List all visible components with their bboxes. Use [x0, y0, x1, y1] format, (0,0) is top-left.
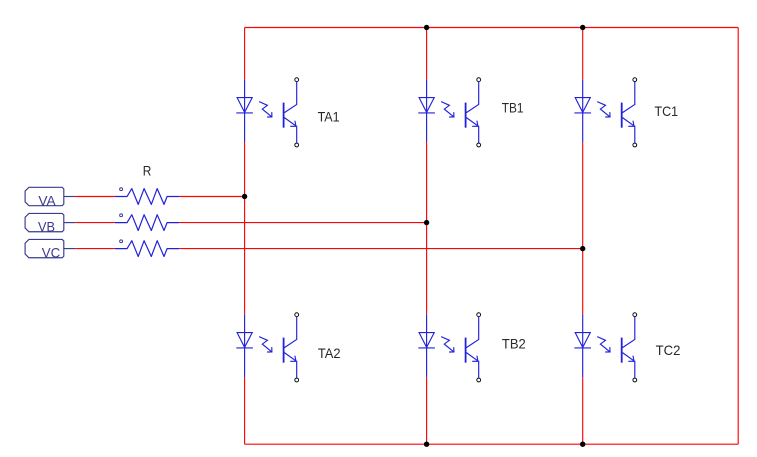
svg-text:TB2: TB2	[502, 336, 526, 352]
svg-text:VA: VA	[38, 193, 56, 209]
svg-text:TA2: TA2	[318, 345, 341, 361]
svg-text:TB1: TB1	[502, 100, 524, 116]
svg-text:TC2: TC2	[656, 342, 681, 358]
svg-text:R: R	[143, 163, 152, 179]
svg-text:VC: VC	[42, 245, 61, 261]
svg-text:TC1: TC1	[655, 103, 679, 119]
svg-text:TA1: TA1	[318, 108, 340, 124]
svg-text:VB: VB	[38, 219, 55, 235]
